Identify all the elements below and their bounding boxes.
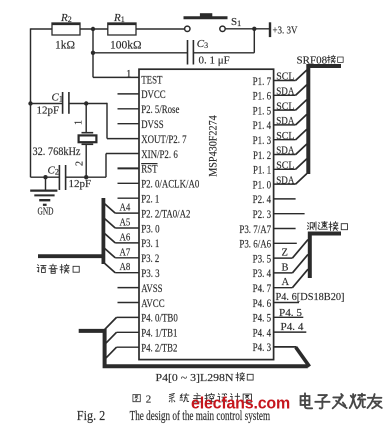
- wire diagonal to voice bus: [105, 233, 116, 243]
- svg-text:12pF: 12pF: [37, 105, 60, 117]
- svg-text:P1. 7: P1. 7: [253, 74, 272, 88]
- wire diagonal to L298N bus: [105, 347, 117, 359]
- svg-text:Fig. 2: Fig. 2: [77, 409, 106, 424]
- wire P1.4 stub: [274, 124, 296, 126]
- wire P4.4 stub: [274, 331, 307, 333]
- svg-text:SDA: SDA: [276, 115, 294, 127]
- wire diagonal to speed bus: [292, 269, 308, 288]
- wire R1 to switch: [136, 28, 185, 30]
- wire P1.7 stub: [274, 80, 296, 82]
- svg-text:P1. 1: P1. 1: [253, 163, 271, 177]
- wire P4.6 stub: [274, 302, 299, 304]
- wire P4.1 stub: [117, 331, 140, 333]
- resistor R1: [108, 23, 136, 35]
- svg-text:P1. 2: P1. 2: [253, 148, 271, 162]
- power +3.3V: [269, 22, 271, 37]
- wire diagonal to bus: [296, 129, 307, 140]
- wire diagonal to speed bus: [292, 240, 308, 259]
- net speed bus bar: [310, 234, 341, 279]
- svg-text:P3. 7/A7: P3. 7/A7: [239, 222, 271, 236]
- wire P3. 4 stub: [274, 272, 293, 274]
- label 语音接口: [37, 265, 46, 273]
- svg-text:DVCC: DVCC: [141, 87, 166, 101]
- wire bottom row: [31, 176, 60, 178]
- wire C3 to TEST node: [93, 52, 188, 54]
- svg-text:SDA: SDA: [276, 145, 294, 157]
- wire diagonal to bus: [296, 100, 307, 111]
- node C1 left junction: [28, 101, 32, 105]
- svg-text:P4. 5: P4. 5: [253, 311, 272, 325]
- wire stub: [118, 287, 140, 289]
- svg-text:SRF08: SRF08: [297, 54, 328, 66]
- svg-text:P3. 2: P3. 2: [141, 251, 159, 265]
- wire left rail: [30, 28, 32, 177]
- node GND junction: [43, 175, 47, 179]
- switch S1: [185, 26, 190, 31]
- wire bus arrow end: [296, 347, 310, 366]
- svg-text:A8: A8: [120, 262, 131, 273]
- wire P2.3 stub: [274, 213, 305, 215]
- wire P3.7/A7 stub: [274, 228, 296, 230]
- wire P1.3 stub: [274, 139, 296, 141]
- svg-text:P4. 1/TB1: P4. 1/TB1: [141, 326, 177, 340]
- wire P4. 7 stub: [274, 287, 293, 289]
- svg-text:DVSS: DVSS: [141, 117, 164, 131]
- svg-text:P4. 6: P4. 6: [253, 296, 272, 310]
- wire A6 stub: [115, 242, 139, 244]
- svg-text:P3. 4: P3. 4: [253, 266, 272, 280]
- wire A7 stub: [115, 257, 139, 259]
- wire diagonal to bus: [296, 144, 307, 155]
- op IC U1 MSP430F2274: [139, 69, 274, 359]
- svg-text:SDA: SDA: [276, 86, 294, 98]
- svg-text:P4. 7: P4. 7: [253, 281, 272, 295]
- svg-text:P4. 5: P4. 5: [279, 307, 303, 319]
- wire diagonal to voice bus: [105, 263, 116, 273]
- svg-text:B: B: [282, 262, 289, 273]
- wire P4.5 stub: [274, 316, 304, 318]
- svg-text:+3. 3V: +3. 3V: [273, 26, 298, 37]
- svg-text:P4. 4: P4. 4: [281, 321, 305, 333]
- svg-text:32. 768kHz: 32. 768kHz: [33, 146, 81, 158]
- resistor R2: [52, 23, 80, 35]
- wire diagonal to bus: [296, 85, 307, 96]
- svg-text:TEST: TEST: [141, 72, 163, 86]
- svg-text:A5: A5: [120, 218, 131, 229]
- wire diagonal to bus: [296, 70, 307, 81]
- wire C2 to crystal bottom node: [66, 176, 106, 178]
- svg-text:1kΩ: 1kΩ: [55, 40, 75, 52]
- watermark 电子发烧友: [301, 393, 313, 408]
- wire stub: [118, 182, 140, 184]
- svg-text:P4. 4: P4. 4: [253, 325, 272, 339]
- wire stub: [118, 197, 140, 199]
- svg-text:XOUT/P2. 7: XOUT/P2. 7: [141, 132, 186, 146]
- crystal Y1 32.768kHz: [85, 104, 87, 133]
- node crystal bottom: [84, 175, 88, 179]
- svg-text:P2. 4: P2. 4: [253, 192, 272, 206]
- wire A5 stub: [115, 227, 139, 229]
- capacitor C3: [187, 40, 189, 65]
- node TEST junction: [91, 27, 95, 31]
- svg-text:P2. 0/ACLK/A0: P2. 0/ACLK/A0: [141, 177, 199, 191]
- svg-text:P1. 6: P1. 6: [253, 89, 272, 103]
- wire diagonal to L298N bus: [105, 317, 117, 329]
- wire P2.4 stub: [274, 198, 296, 200]
- svg-text:1: 1: [126, 68, 132, 80]
- wire P1.5 stub: [274, 109, 296, 111]
- wire R2 to R1: [80, 28, 108, 30]
- wire diagonal to speed bus: [292, 254, 308, 273]
- wire diagonal to bus: [296, 174, 307, 185]
- svg-text:12pF: 12pF: [69, 178, 92, 190]
- wire diagonal to L298N bus: [105, 332, 117, 344]
- svg-text:0. 1 μF: 0. 1 μF: [199, 55, 230, 67]
- wire P4.2 stub: [117, 346, 140, 348]
- svg-text:SDA: SDA: [276, 174, 294, 186]
- wire diagonal to voice bus: [105, 248, 116, 257]
- node crystal top: [84, 101, 88, 105]
- svg-text:P1. 4: P1. 4: [253, 118, 272, 132]
- svg-text:A: A: [282, 277, 290, 288]
- wire A8 stub: [115, 272, 139, 274]
- svg-text:P1. 0: P1. 0: [253, 177, 272, 191]
- svg-text:XIN/P2. 6: XIN/P2. 6: [141, 147, 178, 161]
- svg-text:Z: Z: [282, 248, 288, 259]
- svg-text:2: 2: [75, 161, 86, 166]
- wire P1.2 stub: [274, 154, 296, 156]
- svg-text:P2. 1: P2. 1: [141, 192, 159, 206]
- wire diagonal to voice bus: [105, 219, 116, 229]
- svg-text:A6: A6: [120, 232, 131, 243]
- wire P1.1 stub: [274, 168, 296, 170]
- net SRF08 bus bar: [308, 66, 341, 174]
- wire top rail to R2: [31, 28, 53, 30]
- wire switch to +3.3V: [225, 28, 270, 30]
- wire stub RST: [118, 167, 140, 169]
- wire P4.3 to bus: [274, 346, 297, 348]
- wire P1.0 stub: [274, 183, 296, 185]
- svg-text:2: 2: [146, 394, 152, 406]
- wire C1 to crystal top node: [69, 103, 107, 105]
- wire P1.6 stub: [274, 94, 296, 96]
- wire TEST node down to pin 1: [92, 29, 94, 78]
- wire node down to C3: [253, 29, 255, 53]
- svg-text:P4[0 ~ 3]L298N: P4[0 ~ 3]L298N: [156, 372, 234, 384]
- caption line 1: [133, 395, 140, 402]
- svg-text:SCL: SCL: [276, 71, 294, 83]
- svg-text:elecfans.com: elecfans.com: [191, 394, 290, 413]
- svg-text:P3. 0: P3. 0: [141, 221, 160, 235]
- svg-text:AVCC: AVCC: [141, 296, 164, 310]
- svg-text:A7: A7: [120, 247, 131, 258]
- wire diagonal to bus: [296, 159, 307, 170]
- label 测速接口: [307, 222, 316, 230]
- wire top node to XOUT: [106, 103, 108, 139]
- svg-text:P3. 1: P3. 1: [141, 236, 159, 250]
- wire diagonal to bus: [296, 114, 307, 125]
- svg-text:A4: A4: [120, 203, 131, 214]
- svg-text:P1. 5: P1. 5: [253, 103, 272, 117]
- svg-text:P3. 3: P3. 3: [141, 266, 160, 280]
- svg-text:MSP430F2274: MSP430F2274: [207, 115, 219, 177]
- node C3 top junction: [252, 27, 256, 31]
- wire P3.6/A6 stub: [274, 242, 297, 244]
- wire stub: [118, 93, 140, 95]
- wire P3. 5 stub: [274, 257, 293, 259]
- wire A4 stub: [115, 212, 139, 214]
- svg-text:P4. 3: P4. 3: [253, 340, 272, 354]
- capacitor C1: [62, 92, 64, 114]
- svg-text:100kΩ: 100kΩ: [110, 40, 142, 52]
- svg-text:P2. 5/Rose: P2. 5/Rose: [141, 102, 179, 116]
- svg-text:P2. 2/TA0/A2: P2. 2/TA0/A2: [141, 206, 190, 220]
- wire stub: [118, 108, 140, 110]
- svg-text:P4. 2/TB2: P4. 2/TB2: [141, 341, 177, 355]
- net L298N bus bar: [79, 331, 308, 366]
- svg-text:P3. 6/A6: P3. 6/A6: [239, 237, 271, 251]
- capacitor C2: [58, 165, 60, 190]
- svg-text:SCL: SCL: [276, 160, 294, 172]
- net voice bus bar: [38, 198, 103, 264]
- svg-text:P3. 5: P3. 5: [253, 251, 272, 265]
- wire bottom node up to XIN: [105, 154, 107, 178]
- svg-text:SCL: SCL: [276, 130, 294, 142]
- wire P4.0 stub: [117, 316, 140, 318]
- svg-text:P4. 0/TB0: P4. 0/TB0: [141, 311, 178, 325]
- wire stub: [118, 123, 140, 125]
- svg-text:P4. 6[DS18B20]: P4. 6[DS18B20]: [276, 291, 345, 303]
- svg-text:GND: GND: [38, 207, 54, 218]
- svg-text:SCL: SCL: [276, 100, 294, 112]
- svg-text:P1. 3: P1. 3: [253, 133, 272, 147]
- svg-text:AVSS: AVSS: [141, 281, 162, 295]
- wire diagonal to voice bus: [105, 204, 116, 214]
- wire stub: [118, 302, 140, 304]
- svg-text:1: 1: [74, 120, 85, 125]
- svg-text:P2. 3: P2. 3: [253, 207, 272, 221]
- ground: [45, 177, 47, 191]
